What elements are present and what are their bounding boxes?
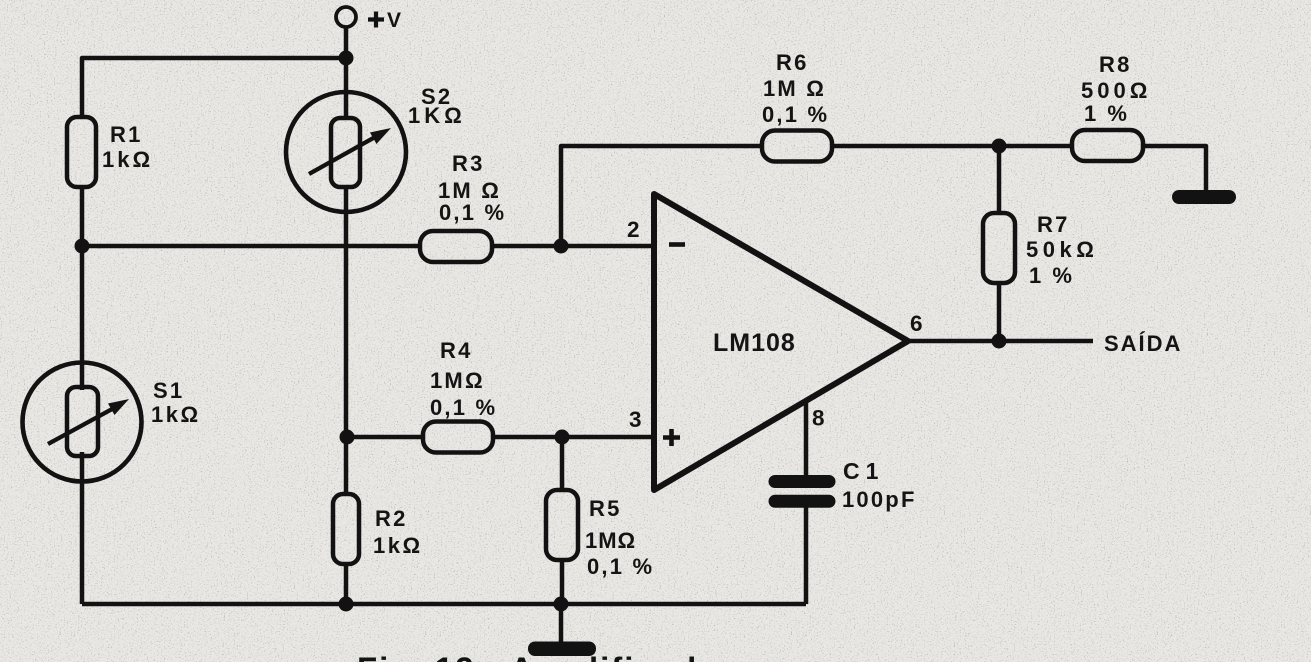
wire top rail xyxy=(82,58,346,117)
wire R8 to ground xyxy=(1143,146,1206,190)
wire R6 to R8 xyxy=(832,144,1072,149)
node pin3 xyxy=(555,430,570,445)
svg-text:S1: S1 xyxy=(153,378,184,403)
sensor S1 xyxy=(23,363,142,482)
wire R4 left xyxy=(347,435,424,440)
svg-text:LM108: LM108 xyxy=(713,329,796,357)
svg-text:R5: R5 xyxy=(589,496,622,521)
svg-text:1KΩ: 1KΩ xyxy=(408,103,466,128)
svg-text:500Ω: 500Ω xyxy=(1081,78,1151,103)
svg-text:Fig. 12 - Amplificador para o: Fig. 12 - Amplificador para o s xyxy=(357,651,889,662)
resistor R6 xyxy=(762,131,832,162)
wire pin8 xyxy=(804,401,809,476)
label R1 xyxy=(102,122,153,172)
node A xyxy=(75,239,90,254)
svg-text:1 %: 1 % xyxy=(1084,101,1129,126)
sensor S2 xyxy=(286,92,406,212)
wire R2 bottom xyxy=(344,564,349,604)
wire S2 column top xyxy=(344,58,349,120)
wire feedback riser xyxy=(561,146,762,246)
svg-text:R3: R3 xyxy=(452,151,485,176)
pin 2 label xyxy=(627,217,642,242)
svg-text:0,1 %: 0,1 % xyxy=(762,102,829,127)
node bottom R2 xyxy=(339,597,354,612)
svg-text:100pF: 100pF xyxy=(842,487,917,512)
label LM108 xyxy=(713,329,796,357)
svg-text:0,1 %: 0,1 % xyxy=(439,200,506,225)
svg-text:0,1 %: 0,1 % xyxy=(430,395,497,420)
label S2 xyxy=(408,84,466,128)
resistor R1 xyxy=(67,117,96,187)
svg-text:1MΩ: 1MΩ xyxy=(430,368,485,393)
svg-text:1MΩ: 1MΩ xyxy=(585,528,636,553)
wire C1 bottom xyxy=(804,507,809,604)
resistor R4 xyxy=(423,422,493,453)
resistor R7 xyxy=(983,213,1015,283)
svg-text:50kΩ: 50kΩ xyxy=(1026,237,1098,262)
svg-text:C1: C1 xyxy=(843,458,884,484)
capacitor C1 xyxy=(769,475,836,508)
svg-text:2: 2 xyxy=(627,217,642,242)
wire R5 top xyxy=(560,437,565,490)
resistor R2 xyxy=(333,494,359,564)
wire R7 top xyxy=(997,146,1002,213)
wire output xyxy=(908,339,1093,344)
+V label xyxy=(368,9,403,32)
label R7 xyxy=(1026,212,1098,288)
svg-text:V: V xyxy=(387,9,403,32)
+V terminal xyxy=(336,7,356,27)
wire S2 column down to R4 node xyxy=(344,186,349,437)
wire R3 to pin2 xyxy=(491,244,654,249)
ground top right xyxy=(1172,190,1236,204)
ground bottom xyxy=(528,642,596,657)
svg-text:1 %: 1 % xyxy=(1029,263,1074,288)
node bottom R5 xyxy=(554,597,569,612)
svg-text:1kΩ: 1kΩ xyxy=(151,402,201,427)
wire ground stub xyxy=(559,604,564,642)
wire +V stub xyxy=(344,27,349,58)
resistor R5 xyxy=(546,490,578,560)
pin 8 label xyxy=(812,406,827,431)
label R8 xyxy=(1081,52,1151,126)
node pin2 xyxy=(554,239,569,254)
svg-text:R6: R6 xyxy=(776,50,809,75)
svg-text:1kΩ: 1kΩ xyxy=(102,147,153,172)
wire R4 to pin3 xyxy=(493,435,654,440)
resistor R8 xyxy=(1072,130,1143,161)
node R4 left xyxy=(340,430,355,445)
wire main rail left xyxy=(82,244,420,249)
wire bottom rail xyxy=(82,602,806,607)
label R5 xyxy=(585,496,654,579)
svg-text:1M Ω: 1M Ω xyxy=(763,76,826,101)
svg-text:R8: R8 xyxy=(1099,52,1132,77)
svg-text:SAÍDA: SAÍDA xyxy=(1104,331,1182,356)
label R6 xyxy=(762,50,829,127)
node supply junction xyxy=(339,51,354,66)
wire R5 bottom xyxy=(560,560,565,604)
label R2 xyxy=(373,506,423,558)
label R3 xyxy=(438,151,506,225)
wire R7 bottom xyxy=(997,283,1002,341)
label S1 xyxy=(151,378,201,427)
wire S1 to bottom rail xyxy=(80,452,85,604)
svg-text:6: 6 xyxy=(910,311,925,336)
op-amp U1 LM108 xyxy=(654,194,908,490)
svg-text:8: 8 xyxy=(812,406,827,431)
svg-text:1kΩ: 1kΩ xyxy=(373,533,423,558)
svg-text:3: 3 xyxy=(629,407,644,432)
svg-text:R7: R7 xyxy=(1037,212,1070,237)
resistor R3 xyxy=(420,231,492,262)
label C1 xyxy=(842,458,917,512)
label SAIDA xyxy=(1104,331,1182,356)
node output xyxy=(992,334,1007,349)
label R4 xyxy=(430,338,497,420)
wire R2 top xyxy=(344,437,349,494)
svg-text:R1: R1 xyxy=(110,122,143,147)
svg-text:R2: R2 xyxy=(375,506,408,531)
wire node A to S1 xyxy=(80,246,85,390)
pin 3 label xyxy=(629,407,644,432)
svg-text:R4: R4 xyxy=(440,338,473,363)
svg-text:0,1 %: 0,1 % xyxy=(587,554,654,579)
node feedback-R7 xyxy=(992,139,1007,154)
pin 6 label xyxy=(910,311,925,336)
wire R1 to node A xyxy=(80,187,85,246)
